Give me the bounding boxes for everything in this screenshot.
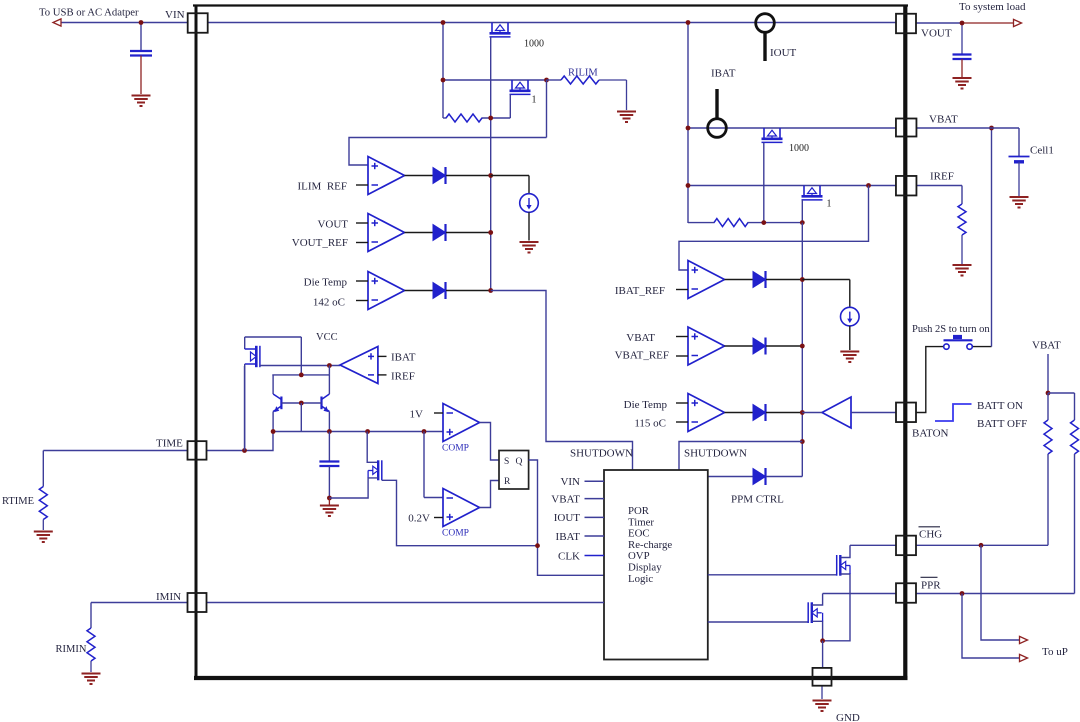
svg-text:1000: 1000	[524, 39, 544, 50]
svg-text:IBAT: IBAT	[391, 352, 416, 364]
svg-text:0.2V: 0.2V	[408, 513, 430, 525]
svg-text:POR: POR	[628, 505, 650, 517]
svg-text:COMP: COMP	[442, 444, 469, 454]
svg-text:Timer: Timer	[628, 516, 654, 528]
svg-text:IREF: IREF	[391, 371, 415, 383]
svg-text:VBAT_REF: VBAT_REF	[615, 350, 669, 362]
svg-text:1000: 1000	[789, 143, 809, 154]
svg-text:TIME: TIME	[156, 438, 183, 450]
svg-text:Q: Q	[516, 457, 523, 467]
svg-text:CLK: CLK	[558, 550, 580, 562]
svg-text:To uP: To uP	[1042, 646, 1068, 658]
svg-text:RTIME: RTIME	[2, 496, 34, 507]
svg-text:VOUT: VOUT	[921, 28, 952, 40]
svg-text:Push 2S to turn on: Push 2S to turn on	[912, 324, 990, 335]
svg-text:To USB or AC Adatper: To USB or AC Adatper	[39, 6, 139, 18]
svg-text:IBAT: IBAT	[556, 531, 581, 543]
svg-text:EOC: EOC	[628, 528, 650, 540]
svg-text:VBAT: VBAT	[1032, 340, 1061, 352]
svg-text:CHG: CHG	[919, 529, 942, 541]
svg-text:SHUTDOWN: SHUTDOWN	[684, 448, 747, 460]
svg-text:VIN: VIN	[165, 9, 185, 21]
svg-text:COMP: COMP	[442, 529, 469, 539]
svg-text:IBAT_REF: IBAT_REF	[615, 285, 665, 297]
svg-text:S: S	[504, 457, 509, 467]
svg-text:GND: GND	[836, 712, 860, 722]
svg-text:1V: 1V	[410, 409, 424, 421]
svg-text:Logic: Logic	[628, 573, 653, 585]
svg-text:VOUT_REF: VOUT_REF	[292, 237, 348, 249]
svg-text:IOUT: IOUT	[554, 512, 581, 524]
svg-text:142 oC: 142 oC	[313, 297, 345, 309]
svg-text:1: 1	[827, 199, 832, 210]
svg-text:VBAT: VBAT	[929, 113, 958, 125]
svg-text:BATT OFF: BATT OFF	[977, 418, 1027, 430]
svg-text:To system load: To system load	[959, 1, 1026, 13]
svg-text:PPR: PPR	[921, 580, 941, 592]
svg-text:115 oC: 115 oC	[634, 418, 666, 430]
svg-text:PPM CTRL: PPM CTRL	[731, 494, 784, 506]
svg-text:IREF: IREF	[930, 170, 954, 182]
svg-text:Cell1: Cell1	[1030, 145, 1054, 157]
svg-text:OVP: OVP	[628, 550, 650, 562]
svg-text:VCC: VCC	[316, 332, 338, 343]
svg-text:IBAT: IBAT	[711, 68, 736, 80]
svg-text:Die Temp: Die Temp	[624, 399, 668, 411]
svg-text:RIMIN: RIMIN	[56, 644, 87, 655]
svg-text:ILIM REF: ILIM REF	[298, 181, 348, 193]
svg-text:BATON: BATON	[912, 427, 949, 439]
svg-text:IMIN: IMIN	[156, 591, 181, 603]
svg-text:IOUT: IOUT	[770, 47, 797, 59]
svg-text:VBAT: VBAT	[626, 332, 655, 344]
svg-text:SHUTDOWN: SHUTDOWN	[570, 448, 633, 460]
svg-text:VIN: VIN	[560, 476, 580, 488]
svg-text:Display: Display	[628, 562, 662, 574]
svg-text:R: R	[504, 477, 511, 487]
svg-text:VOUT: VOUT	[317, 219, 348, 231]
svg-text:VBAT: VBAT	[551, 493, 580, 505]
svg-text:RILIM: RILIM	[568, 68, 598, 79]
svg-text:BATT ON: BATT ON	[977, 400, 1023, 412]
svg-text:Die Temp: Die Temp	[304, 277, 348, 289]
svg-text:Re-charge: Re-charge	[628, 539, 672, 551]
svg-text:1: 1	[532, 95, 537, 106]
